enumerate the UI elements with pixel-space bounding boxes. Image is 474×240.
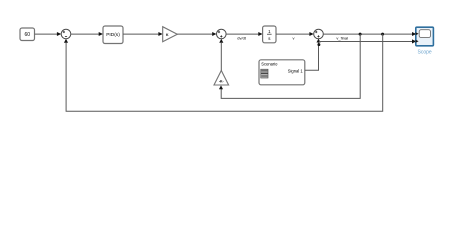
wire 60 to sum S1 [35, 33, 57, 35]
svg-text:Signal 1: Signal 1 [288, 68, 304, 73]
Scope block [416, 27, 434, 55]
junction dot B on v_final wire [381, 33, 384, 36]
sum S3 [314, 29, 324, 39]
svg-text:60: 60 [25, 32, 31, 38]
sum S1 [61, 29, 71, 39]
wire S2 to integrator, label dv/dt [226, 33, 259, 35]
gain block G1 [163, 27, 178, 42]
svg-text:PID(s): PID(s) [106, 32, 120, 38]
wire Scenario to sum S3 bottom [305, 43, 319, 71]
junction dot A on v_final wire [359, 33, 362, 36]
svg-text:-K-: -K- [219, 79, 225, 83]
integrator block 1/s [263, 26, 276, 43]
svg-text:Scenario: Scenario [261, 62, 278, 67]
svg-text:v_final: v_final [336, 35, 348, 40]
sum S2 [217, 29, 227, 39]
PID controller block [103, 26, 123, 44]
wire G2 up to sum S2 bottom [220, 43, 222, 71]
Scenario signal editor block [259, 60, 305, 85]
feedback wire B: dot B down, left, up into sum S1 bottom [66, 34, 383, 111]
wire G1 to sum S2 [177, 33, 212, 35]
svg-text:dv/dt: dv/dt [237, 35, 247, 40]
wire PID to gain G1 [123, 33, 159, 35]
svg-text:Scope: Scope [418, 50, 432, 56]
wire integrator to sum S3, label v [276, 33, 310, 35]
svg-text:v: v [293, 35, 295, 40]
wire S3 to Scope port 1, label v_final [323, 33, 412, 35]
feedback wire A: dot A down, left, up into gain G2 [221, 34, 360, 98]
branch wire to Scope port 2 [319, 41, 412, 43]
junction dot C on Scenario wire [317, 43, 320, 46]
gain block G2 (-K-) pointing up [214, 71, 229, 86]
wire S1 to PID [71, 33, 99, 35]
constant block 60 [20, 28, 35, 41]
